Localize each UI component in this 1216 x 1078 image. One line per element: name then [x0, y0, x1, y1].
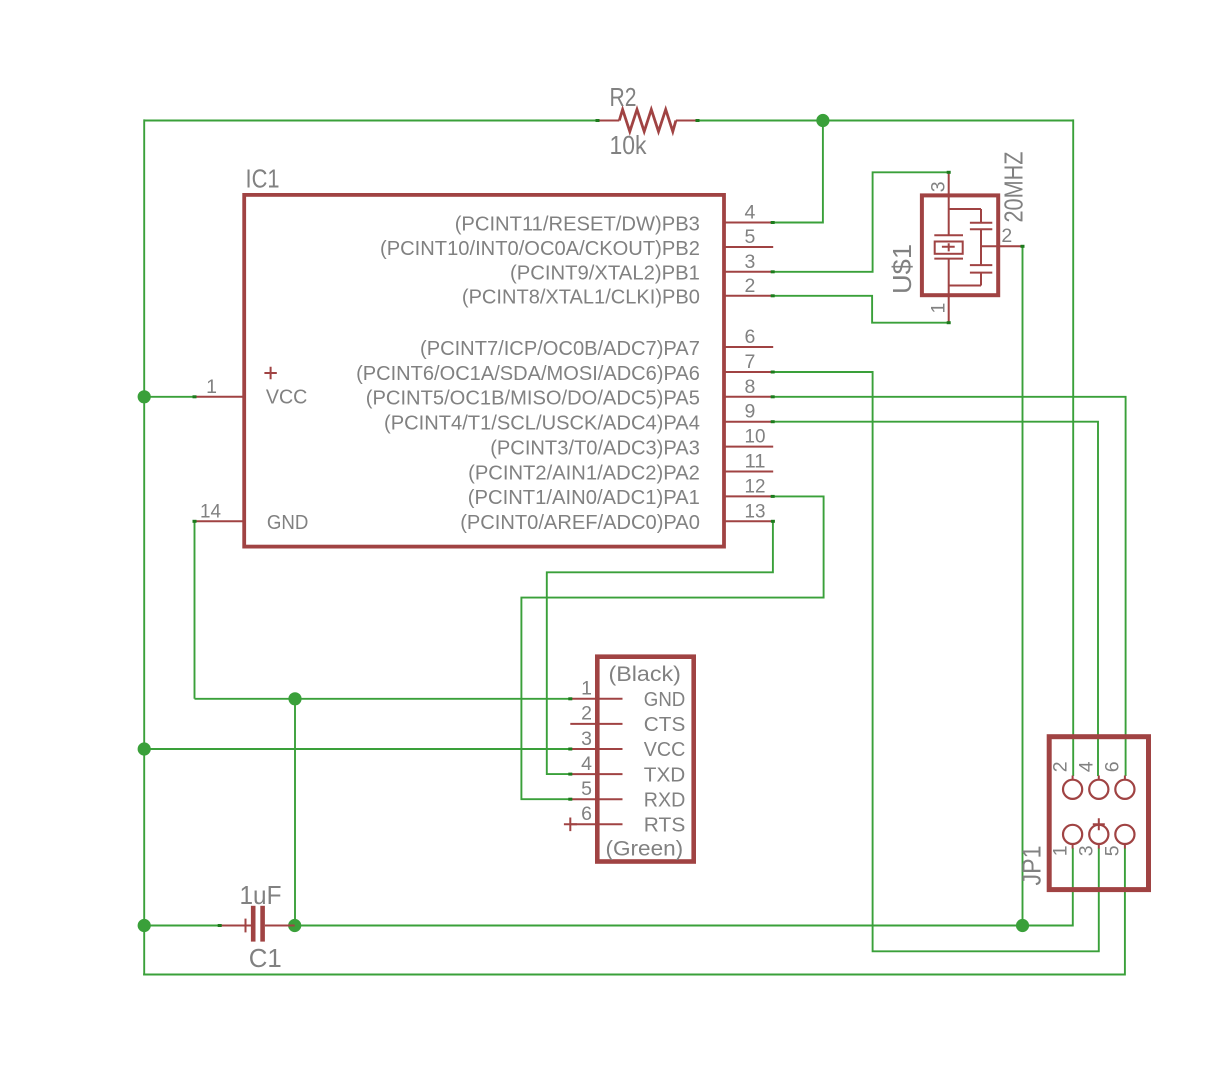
JP1 pin 4 pad circle — [1089, 780, 1108, 799]
svg-text:(PCINT1/AIN0/ADC1)PA1: (PCINT1/AIN0/ADC1)PA1 — [468, 486, 700, 509]
JP1 pin 3 stub — [1098, 844, 1100, 849]
wire XTAL2 net: PB1 to resonator pin3 — [773, 172, 949, 271]
IC1 body outline — [244, 195, 724, 547]
svg-text:(PCINT3/T0/ADC3)PA3: (PCINT3/T0/ADC3)PA3 — [490, 436, 700, 459]
svg-text:TXD: TXD — [644, 763, 686, 786]
IC1 pin 12 PA1 lead — [723, 495, 773, 497]
svg-text:13: 13 — [745, 500, 766, 522]
IC1 pin 11 PA2 lead — [723, 471, 773, 473]
capacitor C1 left lead — [220, 925, 251, 927]
IC1 pin 8 PA5 lead — [723, 396, 773, 398]
junction dot GND at serial GND branch — [288, 692, 301, 705]
junction dot VCC at serial VCC branch — [138, 742, 151, 755]
wire PA4 net: IC1 pin9 to JP1 pin4 — [773, 422, 1098, 776]
capacitor C1 left plate — [251, 906, 256, 942]
svg-text:(PCINT11/RESET/DW)PB3: (PCINT11/RESET/DW)PB3 — [455, 212, 700, 235]
svg-text:C1: C1 — [249, 943, 282, 973]
IC1 pin 7 PA6 lead — [723, 371, 773, 373]
IC1 pin 6 PA7 lead — [723, 346, 773, 348]
serial header pin 5 RXD lead — [570, 798, 622, 800]
serial header RTS unconnected plus mark — [564, 818, 577, 832]
junction dot GND at resonator pin2 drop — [1016, 919, 1029, 932]
resonator U$1 cap chain bottom — [980, 273, 982, 286]
svg-text:5: 5 — [745, 226, 756, 248]
svg-text:3: 3 — [581, 728, 592, 750]
svg-text:4: 4 — [581, 753, 592, 775]
svg-text:6: 6 — [745, 326, 756, 348]
JP1 body outline — [1049, 737, 1148, 890]
resistor R2 right lead — [676, 120, 698, 122]
svg-text:(PCINT2/AIN1/ADC2)PA2: (PCINT2/AIN1/ADC2)PA2 — [468, 461, 700, 484]
serial header pin 2 CTS lead — [570, 723, 622, 725]
svg-text:1: 1 — [1049, 845, 1071, 856]
wire GND net: across to serial GND pin1 — [195, 698, 571, 700]
resonator U$1 origin cross — [942, 243, 955, 251]
svg-text:IC1: IC1 — [246, 164, 280, 194]
resonator U$1 crystal top plate — [934, 234, 963, 236]
resonator U$1 bottom link — [949, 285, 981, 287]
svg-text:R2: R2 — [610, 82, 637, 112]
IC1 pin 9 PA4 lead — [723, 421, 773, 423]
wire GND net: IC1 pin14 down — [194, 521, 196, 699]
IC1 pin 3 PB1 lead — [723, 271, 773, 273]
svg-text:6: 6 — [1102, 761, 1124, 772]
resonator U$1 pin 1 lead — [948, 259, 950, 323]
svg-text:RTS: RTS — [644, 814, 686, 837]
svg-text:10: 10 — [745, 426, 766, 448]
wire VCC net: stub to IC1 pin1 — [144, 396, 194, 398]
svg-text:VCC: VCC — [644, 738, 686, 761]
wire GND net: bottom bus to JP1 pin1 — [295, 848, 1073, 926]
wire RESET net: right rail down to JP1 pin2 — [1072, 119, 1074, 776]
svg-text:6: 6 — [581, 803, 592, 825]
svg-text:U$1: U$1 — [887, 244, 917, 294]
wire PA5 net: IC1 pin8 to JP1 pin6 — [773, 397, 1126, 776]
svg-text:11: 11 — [745, 451, 766, 473]
serial header body outline — [597, 657, 693, 862]
resonator U$1 cap1 bottom plate — [970, 228, 992, 230]
svg-text:(PCINT8/XTAL1/CLKI)PB0: (PCINT8/XTAL1/CLKI)PB0 — [462, 286, 700, 309]
JP1 pin 3 pad circle — [1089, 825, 1108, 844]
svg-text:CTS: CTS — [644, 713, 686, 736]
svg-text:3: 3 — [1076, 845, 1098, 856]
svg-text:(PCINT7/ICP/OC0B/ADC7)PA7: (PCINT7/ICP/OC0B/ADC7)PA7 — [420, 337, 700, 360]
IC1 pin 2 PB0 lead — [723, 295, 773, 297]
JP1 pin 6 pad circle — [1115, 780, 1134, 799]
svg-text:3: 3 — [928, 181, 950, 192]
svg-text:1: 1 — [206, 376, 217, 398]
JP1 pin 2 stub — [1072, 776, 1074, 780]
serial header pin 1 GND lead — [570, 698, 622, 700]
capacitor C1 right plate — [260, 906, 265, 942]
svg-text:(Black): (Black) — [609, 662, 681, 686]
wire VCC net: branch to serial VCC pin3 — [144, 748, 570, 750]
svg-text:20MHZ: 20MHZ — [999, 151, 1029, 222]
JP1 pin 6 stub — [1124, 776, 1126, 780]
wire RESET net: top rail right segment R2 to corner — [698, 120, 1074, 122]
wire VCC net: left rail vertical — [143, 119, 145, 974]
svg-text:7: 7 — [745, 351, 756, 373]
svg-text:12: 12 — [745, 475, 766, 497]
svg-text:8: 8 — [745, 376, 756, 398]
wire GND net: C1 left to VCC?? left lead wire — [144, 925, 220, 927]
JP1 pin 1 stub — [1072, 844, 1074, 849]
svg-text:GND: GND — [644, 688, 686, 711]
junction dot VCC at IC1 pin1 — [138, 390, 151, 403]
resonator U$1 cap1 top plate — [970, 222, 992, 224]
JP1 pin 1 pad circle — [1063, 825, 1082, 844]
resonator U$1 body outline — [922, 195, 998, 295]
serial header pin 3 VCC lead — [570, 748, 622, 750]
svg-text:(PCINT4/T1/SCL/USCK/ADC4)PA4: (PCINT4/T1/SCL/USCK/ADC4)PA4 — [384, 412, 700, 435]
resonator U$1 crystal bottom plate — [934, 258, 963, 260]
resistor R2 left lead — [598, 120, 620, 122]
svg-text:1uF: 1uF — [240, 880, 282, 910]
svg-text:JP1: JP1 — [1017, 846, 1047, 886]
wire GND net: resonator pin2 down to bus — [1022, 246, 1024, 925]
IC1 pin 1 VCC lead — [195, 396, 245, 398]
IC1 pin 4 PB3 lead — [723, 222, 773, 224]
svg-text:(PCINT5/OC1B/MISO/DO/ADC5)PA5: (PCINT5/OC1B/MISO/DO/ADC5)PA5 — [366, 387, 700, 410]
JP1 pin 4 stub — [1098, 776, 1100, 780]
IC1 pin 14 GND lead — [195, 520, 245, 522]
svg-text:(PCINT6/OC1A/SDA/MOSI/ADC6)PA6: (PCINT6/OC1A/SDA/MOSI/ADC6)PA6 — [356, 362, 700, 385]
svg-text:(PCINT0/AREF/ADC0)PA0: (PCINT0/AREF/ADC0)PA0 — [460, 511, 700, 534]
wire VCC net: bottom bus to JP1 pin5 — [143, 848, 1125, 975]
JP1 pin 5 pad circle — [1115, 825, 1134, 844]
wire PA0 net: IC1 pin13 to serial TXD pin4 — [547, 521, 773, 774]
svg-text:1: 1 — [581, 678, 592, 700]
IC1 pin 5 PB2 lead — [723, 246, 773, 248]
svg-text:2: 2 — [581, 703, 592, 725]
JP1 pin 3 plus mark — [1093, 818, 1105, 830]
svg-text:GND: GND — [267, 511, 309, 534]
wire PA1 net: IC1 pin12 to serial RXD pin5 — [521, 496, 823, 799]
svg-text:1: 1 — [928, 303, 950, 314]
wire GND net: junction down to C1 right — [294, 699, 296, 926]
svg-text:2: 2 — [1049, 761, 1071, 772]
capacitor C1 right lead — [265, 925, 295, 927]
wire XTAL1 net: PB0 to resonator pin1 — [773, 296, 949, 323]
resistor R2 zigzag body — [619, 110, 676, 132]
resonator U$1 cap2 top plate — [970, 264, 992, 266]
svg-text:5: 5 — [581, 778, 592, 800]
wire RESET net: junction down to IC1 PB3 pin4 — [773, 121, 823, 223]
serial header pin 4 TXD lead — [570, 773, 622, 775]
resonator U$1 pin 3 lead — [948, 172, 950, 235]
junction dot VCC at C1 left — [138, 919, 151, 932]
IC1 pin 10 PA3 lead — [723, 446, 773, 448]
resonator U$1 crystal rect — [935, 242, 963, 254]
resonator U$1 top link — [949, 208, 981, 210]
svg-text:10k: 10k — [610, 130, 648, 160]
resonator U$1 cap2 bottom plate — [970, 272, 992, 274]
resonator U$1 cap chain top — [980, 209, 982, 223]
svg-text:4: 4 — [745, 202, 756, 224]
svg-text:9: 9 — [745, 401, 756, 423]
JP1 pin 2 pad circle — [1063, 780, 1082, 799]
serial header pin 6 RTS lead — [570, 823, 622, 825]
svg-text:2: 2 — [745, 275, 756, 297]
svg-text:2: 2 — [1001, 225, 1012, 247]
capacitor C1 plus mark — [245, 919, 247, 933]
IC1 pin 13 PA0 lead — [723, 520, 773, 522]
IC1 VCC plus mark — [264, 367, 276, 379]
svg-text:14: 14 — [200, 501, 221, 523]
svg-text:VCC: VCC — [266, 386, 308, 409]
svg-text:4: 4 — [1076, 761, 1098, 772]
wire VCC net: top rail left segment — [144, 120, 597, 122]
svg-text:(PCINT10/INT0/OC0A/CKOUT)PB2: (PCINT10/INT0/OC0A/CKOUT)PB2 — [380, 237, 700, 260]
resonator U$1 pin 2 lead — [981, 245, 1023, 247]
resonator U$1 cap chain middle — [980, 229, 982, 265]
JP1 pin 5 stub — [1124, 844, 1126, 849]
svg-text:(PCINT9/XTAL2)PB1: (PCINT9/XTAL2)PB1 — [510, 262, 700, 285]
junction dot RESET at R2 output — [816, 114, 829, 127]
svg-text:RXD: RXD — [644, 788, 686, 811]
svg-text:5: 5 — [1102, 845, 1124, 856]
svg-text:(Green): (Green) — [606, 837, 684, 861]
svg-text:3: 3 — [745, 251, 756, 273]
wire PA6 net: IC1 pin7 to JP1 pin3 — [773, 372, 1099, 951]
junction dot GND at C1 right — [288, 919, 301, 932]
pin-wire connection ticks — [596, 119, 600, 122]
